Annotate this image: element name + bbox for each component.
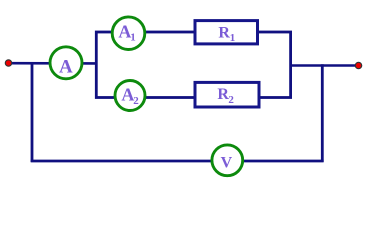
svg-text:2: 2 [133,95,139,107]
wire: left horizontal from left terminal to parallel junction [9,62,97,65]
svg-text:1: 1 [230,32,236,44]
svg-text:2: 2 [228,94,234,106]
ammeter A1 [112,17,145,50]
wire: right vertical down to bottom voltmeter wire [321,64,324,162]
node: right terminal [355,62,361,68]
wire: bottom horizontal through voltmeter [31,160,324,163]
svg-text:R: R [218,24,230,41]
svg-text:V: V [221,155,233,172]
node: left terminal [5,60,11,66]
svg-text:1: 1 [130,32,136,44]
wire: parallel-branch loop (left vertical, top branch, right vertical, bottom branch) [96,32,290,98]
ammeter A [50,47,82,79]
resistor R1 [195,21,258,44]
wire: left vertical from main wire down to bottom voltmeter wire [31,63,34,163]
resistor R2 [195,82,259,107]
svg-text:A: A [59,57,73,78]
wire: right horizontal from loop to right terminal [291,64,357,67]
voltmeter V [212,145,243,176]
ammeter A2 [115,81,145,111]
